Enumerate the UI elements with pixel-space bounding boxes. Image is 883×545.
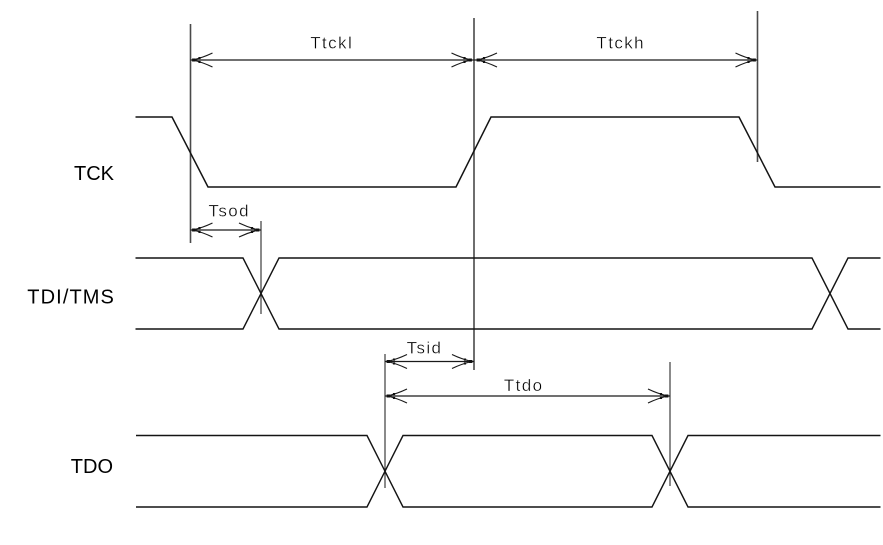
svg-text:TCK: TCK [74,163,115,185]
svg-text:Tsod: Tsod [208,202,250,221]
svg-text:TDO: TDO [71,456,113,478]
svg-text:Ttckl: Ttckl [310,34,353,53]
svg-text:Tsid: Tsid [407,339,443,358]
svg-text:Ttdo: Ttdo [504,376,544,395]
svg-text:Ttckh: Ttckh [596,34,645,53]
svg-text:TDI/TMS: TDI/TMS [27,287,115,309]
